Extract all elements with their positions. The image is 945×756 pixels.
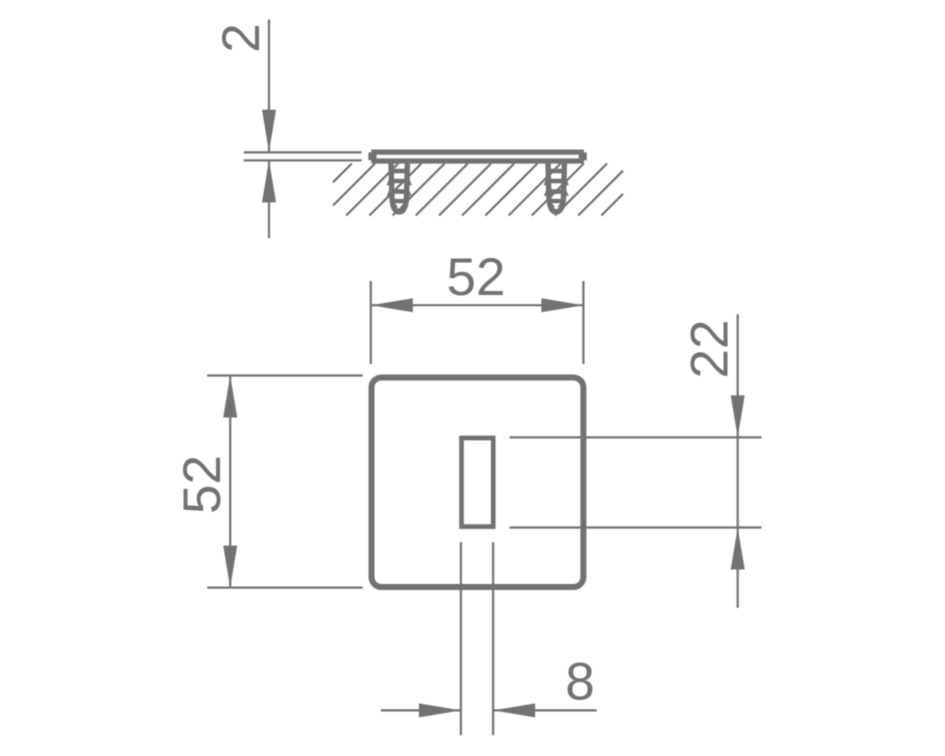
dimension 22: extension lines <box>510 437 762 527</box>
svg-text:52: 52 <box>173 455 232 514</box>
dimension 8: extension lines <box>461 542 493 735</box>
push-in fastener right <box>544 163 569 212</box>
dim 2 down arrow <box>262 110 276 152</box>
slot in cap <box>462 438 494 527</box>
cover cap plate (section view) <box>368 152 586 161</box>
dim 52 left up arrow <box>223 376 237 418</box>
square cap front view <box>372 378 584 588</box>
dimension 2: extension lines <box>244 152 362 160</box>
dim 22 down arrow <box>731 395 745 437</box>
svg-text:8: 8 <box>565 653 594 712</box>
dim 22 up arrow <box>731 528 745 570</box>
push-in fastener left <box>387 163 412 212</box>
dim 52 top right arrow <box>541 298 583 312</box>
dim 52 left down arrow <box>223 546 237 588</box>
dimension 52 left: dimension line <box>229 376 231 588</box>
arrowheads <box>223 110 745 718</box>
dimension 22: dimension line <box>737 314 739 608</box>
svg-text:2: 2 <box>212 23 271 52</box>
dim 52 top left arrow <box>371 298 413 312</box>
dim 8 left-pointing arrow <box>493 703 535 717</box>
dimension 52 left: extension lines <box>207 376 363 588</box>
svg-text:52: 52 <box>447 248 506 307</box>
svg-text:22: 22 <box>681 320 740 379</box>
hatched panel section <box>333 164 623 216</box>
dimension 8: dimension line <box>381 709 597 711</box>
dim 2 up arrow <box>262 160 276 202</box>
dimension 52 top: extension lines <box>371 281 584 364</box>
dim 8 right-pointing arrow <box>419 703 461 717</box>
dimension 52 top: dimension line <box>371 304 584 306</box>
dimension 2: dimension line <box>268 20 270 239</box>
